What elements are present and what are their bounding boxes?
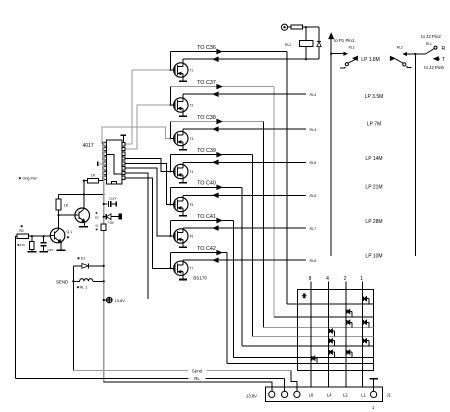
node P1 rail [330,39,332,256]
wire row4 drain line [183,161,306,163]
arrow T contact [434,57,439,61]
wire 13.8V to connector [104,382,272,391]
wire row7 drain line [183,259,306,261]
svg-text:4: 4 [326,276,329,282]
arrow row1 right [217,49,222,53]
svg-text:T3: T3 [190,137,194,141]
arrow to P1 Pin1 [329,33,334,39]
diode matrix col8 row y363.4 [311,356,313,360]
arrow row2 left [213,92,218,96]
wire row1 top line to matrix [170,51,286,53]
svg-text:L8: L8 [309,392,314,397]
wire matrix row 1 [297,303,373,305]
svg-text:LP 10M: LP 10M [365,254,382,260]
diode matrix col1 row y304.0 [363,297,365,301]
diode matrix col2 row y357.4 [346,350,348,354]
svg-text:R: R [442,46,446,52]
wire row5 top line to matrix [170,186,242,188]
svg-text:✱: ✱ [20,224,23,228]
svg-text:TO C40: TO C40 [197,181,216,187]
svg-text:T6: T6 [190,234,194,238]
wire row3 top line to matrix [170,121,263,123]
resistor 1K vertical [58,194,60,199]
arrow row3 left [213,127,218,131]
pin 13.8V [269,391,275,397]
svg-text:J1: J1 [387,392,392,397]
svg-text:TO C39: TO C39 [197,148,216,154]
pin RL [294,391,300,397]
svg-text:T4: T4 [190,170,194,174]
diode matrix col2 row y316.8 [346,309,348,313]
wire IC to T3 gate (over top) [102,127,170,144]
svg-text:RL2: RL2 [349,46,355,50]
svg-text:TO C38: TO C38 [197,115,216,121]
diode matrix col1 row y327.6 [363,320,365,324]
svg-text:RL2: RL2 [285,43,291,47]
power bar IC [122,135,124,142]
wire IC pin5 to T5 gate [125,163,170,204]
wire IC pin6 to T6 gate [125,168,170,236]
arrow row6 left [213,226,218,230]
wire row2 drain line [183,93,306,95]
svg-text:RL: RL [194,376,200,381]
node send [72,280,74,282]
wire gate T4 to top line [169,155,171,172]
wire input line [15,235,16,237]
arrow row4 left [213,160,218,164]
wire IC pin7 down [125,173,148,299]
wire internal routing [106,154,121,174]
connector J1 body [265,387,382,402]
relay coil RL2 [305,27,307,41]
pin Send [282,391,288,397]
wire matrix row 3 [297,327,373,329]
transistor T5 [174,197,188,211]
capacitor C01X decoupling [103,203,105,205]
matrix box [297,289,373,370]
resistor on bus [101,224,106,231]
wire gate T6 to top line [169,221,171,237]
ground T5 [179,215,187,217]
transistor T2 [174,98,188,112]
wire gate T5 to top line [169,187,171,204]
svg-text:L1: L1 [361,392,366,397]
svg-text:D2: D2 [95,215,99,219]
relay coil RL1 [73,280,80,282]
svg-text:to J2 Pin2: to J2 Pin2 [421,34,441,39]
pin 1 [371,391,377,397]
svg-text:2: 2 [344,276,347,282]
wire gate T1 to top line [169,52,171,70]
IC notch [112,181,117,184]
wire send vertical [72,266,74,371]
svg-text:T5: T5 [190,203,194,207]
wire matrix row 4 [297,335,373,337]
svg-text:Send: Send [192,368,203,373]
resistor 1K horizontal [83,180,85,182]
arrow row7 left [213,258,218,262]
wire matrix row 6 [297,356,373,358]
node J2 rail [414,53,416,55]
svg-text:4017: 4017 [83,143,94,149]
node gate T6 [169,235,171,237]
capacitor C input [43,236,45,243]
svg-text:TO C37: TO C37 [197,80,216,86]
wire matrix row 7 [297,362,373,364]
diode matrix col4 row y346.0 [328,339,330,343]
wire resistor to rail [83,181,85,195]
ground Q2 [79,226,88,228]
wire IC pin4 to T4 gate [125,159,170,172]
zener diode 7.5V [103,216,105,218]
wire matrix row 5 [297,345,373,347]
svg-text:LP 14M: LP 14M [365,156,382,162]
arrow row2 right [217,84,222,88]
transistor T6 [174,229,188,243]
ground T3 [179,149,187,151]
relay contact RL2 right [390,56,395,60]
node gate T4 [169,171,171,173]
wire row5 drain line [183,194,306,196]
transistor T4 [174,164,188,178]
wire gate T3 to top line [169,122,171,139]
svg-text:LP 3.5M: LP 3.5M [365,94,384,100]
wire row7 top line to matrix [170,252,227,254]
wire IC pin2 to T2 gate [125,105,170,149]
node gate T7 [169,267,171,269]
svg-text:L2: L2 [343,392,348,397]
ground T4 [179,182,187,184]
ground T2 [179,115,187,117]
wire Send to connector [73,370,188,372]
svg-text:✱ D1: ✱ D1 [77,256,85,260]
svg-text:1: 1 [360,276,363,282]
svg-text:RL1: RL1 [426,42,432,46]
svg-text:C01✕: C01✕ [109,197,118,201]
IC left pins [103,143,106,146]
svg-text:LP 1.8M: LP 1.8M [361,57,380,63]
svg-text:RL2: RL2 [397,46,403,50]
ground C [39,251,48,253]
svg-text:TO C42: TO C42 [197,246,216,252]
svg-text:✱RL 1: ✱RL 1 [77,285,88,289]
LED 13.8V indicator [103,299,105,301]
svg-text:RL8: RL8 [310,259,317,263]
svg-text:✱: ✱ [67,236,70,240]
svg-text:C05: C05 [47,248,53,252]
node gate T1 [169,69,171,71]
svg-text:1K: 1K [64,202,69,207]
svg-text:RL4: RL4 [310,128,317,132]
wire IC pin1 to T1 gate [125,70,170,144]
svg-text:T2: T2 [190,103,194,107]
svg-text:SEND: SEND [56,280,68,285]
relay contact RL1 (T/R) [403,53,425,55]
wire IC pin8 to T7 gate [125,178,170,268]
arrow row4 right [217,153,222,157]
arrow row3 right [217,119,222,123]
arrow row1 left [213,57,218,61]
ground R470 [27,251,36,253]
wire row6 drain line [183,227,306,229]
svg-text:TO C41: TO C41 [197,214,216,220]
svg-text:to J2 Pin6: to J2 Pin6 [424,65,444,70]
svg-text:BS170: BS170 [193,275,207,280]
arrow row6 right [217,218,222,222]
svg-text:T: T [442,57,445,63]
wire 13.8V rail [59,193,104,195]
svg-text:TO C36: TO C36 [197,45,216,51]
wire gate T2 to top line [169,87,171,105]
diode matrix col2 row y327.6 [346,320,348,324]
svg-text:13.8V: 13.8V [115,298,126,303]
wire row4 top line to matrix [170,154,252,156]
svg-text:T1: T1 [190,68,194,72]
clock input marker [97,162,99,167]
node gate T2 [169,104,171,106]
ground T1 [179,80,187,82]
svg-text:8: 8 [309,276,312,282]
diode matrix col4 row y336.3 [328,329,330,333]
node gate T5 [169,204,171,206]
svg-text:L4: L4 [327,392,332,397]
svg-text:✱ Orig.Pwr: ✱ Orig.Pwr [18,176,37,180]
svg-text:LP 7M: LP 7M [367,122,381,128]
wire left rail down [14,236,16,378]
wire 13.8V bus [103,141,105,382]
svg-text:Q.1: Q.1 [67,230,73,234]
transistor Q1 [50,228,65,243]
wire gate T7 to top line [169,253,171,269]
resistor R input [17,234,29,238]
diode D (across RL2 coil) [317,41,321,43]
wire row2 top line to matrix [170,86,273,88]
IC right pins [122,143,125,146]
diode matrix col1 row y346.0 [363,339,365,343]
svg-text:RL5: RL5 [310,161,317,165]
wire node to diode top [306,26,319,28]
svg-text:7.5V: 7.5V [107,221,114,225]
arrow row7 right [217,250,222,254]
wire RL to connector [15,377,188,379]
svg-text:RL6: RL6 [310,194,317,198]
transistor T3 [174,131,188,145]
wire matrix row 2 [297,316,373,318]
IC U1 4017 [106,140,121,184]
svg-text:LP 21M: LP 21M [365,185,382,191]
svg-text:13.8V: 13.8V [246,393,257,398]
wire row6 top line to matrix [170,220,233,222]
wire row3 drain line [183,128,306,130]
transistor T7 [174,261,188,275]
arrow row5 left [213,193,218,197]
svg-text:LP 28M: LP 28M [365,219,382,225]
wire row1 drain line [183,58,306,60]
svg-text:to P1 Pin1: to P1 Pin1 [334,38,355,43]
transistor Q2 [75,208,90,223]
resistor Rx (series with indicator) [291,25,302,29]
diode matrix col4 row y357.4 [328,350,330,354]
wire coil bottom to drain line [306,58,319,60]
node Q1 collector [57,214,59,216]
ground Q1 [56,249,65,251]
svg-text:1K: 1K [91,173,96,178]
ground T7 [179,279,187,281]
svg-text:✱470: ✱470 [17,243,25,247]
node coil top [305,26,307,28]
arrow row5 right [217,185,222,189]
pin1 key mark [373,379,375,392]
svg-text:RL3: RL3 [310,93,317,97]
svg-text:R0: R0 [19,229,23,233]
svg-text:RL7: RL7 [310,227,317,231]
LED indicator power [281,24,287,30]
ground T6 [179,246,187,248]
svg-text:T7: T7 [190,267,194,271]
resistor 470 to ground [31,236,33,241]
transistor T1 [174,63,188,77]
node gate T3 [169,138,171,140]
asterisk marker [302,295,307,297]
